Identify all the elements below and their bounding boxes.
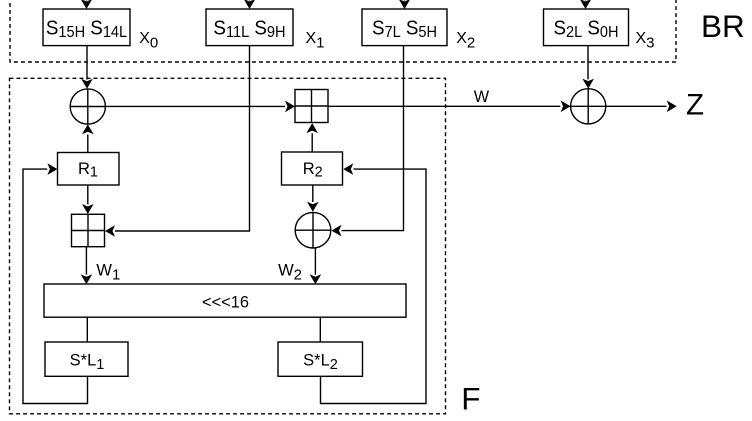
svg-text:X2: X2 [456, 30, 475, 52]
wire input arrow into X0 cell [81, 0, 93, 9]
label BR [701, 8, 745, 44]
label W1 [96, 261, 120, 283]
S-box S*L1 [45, 342, 128, 376]
wire R2 down to XOR E [307, 185, 319, 212]
register R1 [58, 153, 120, 186]
dashed box BR [10, 0, 676, 62]
register cell box S2L S0H [544, 9, 629, 46]
wire feedback S*L2 to R2 (right loop) [321, 163, 427, 403]
svg-text:Z: Z [686, 88, 704, 121]
label W [474, 88, 490, 106]
wire X2 cell down and left to XOR E [332, 46, 404, 237]
XOR E (exclusive-or below R2) [295, 212, 331, 248]
label W2 [278, 261, 302, 283]
XOR A (left exclusive-or) [70, 89, 105, 124]
S-box S*L2 [278, 342, 363, 376]
svg-text:S11L S9H: S11L S9H [213, 17, 285, 41]
svg-text:X3: X3 [636, 30, 655, 52]
svg-text:R2: R2 [303, 160, 323, 181]
register cell box S7L S5H [362, 9, 447, 46]
wire X3 cell down to XOR C [582, 46, 594, 89]
wire XOR A to adder B [105, 101, 295, 113]
svg-text:<<<16: <<<16 [202, 293, 249, 311]
wire rotate box down to S*L2 [319, 317, 321, 342]
adder D (mod 2^32 add, below R1) [72, 214, 105, 246]
wire feedback S*L1 to R1 (left loop) [23, 163, 88, 403]
wire R1 down to adder D [82, 185, 94, 214]
register R2 [282, 152, 343, 185]
svg-text:W1: W1 [96, 261, 120, 283]
register cell box S15H S14L [43, 9, 130, 46]
svg-text:S*L2: S*L2 [303, 351, 338, 373]
svg-text:S2L S0H: S2L S0H [553, 17, 618, 41]
svg-text:W: W [474, 88, 490, 106]
svg-text:X0: X0 [139, 30, 158, 52]
wire input arrow into X1 cell [244, 0, 256, 9]
adder B (mod 2^32 add, top) [295, 90, 328, 123]
register cell box S11L S9H [206, 9, 293, 46]
wire X0 cell down to XOR A [81, 46, 93, 89]
wire W from adder B to XOR C [328, 101, 571, 113]
svg-text:S7L S5H: S7L S5H [372, 17, 437, 41]
svg-text:W2: W2 [278, 261, 302, 283]
wire input arrow into X3 cell [580, 0, 592, 9]
rotate-left-16 box [44, 284, 406, 317]
label X0 [139, 30, 158, 52]
label X2 [456, 30, 475, 52]
wire R2 up to adder B [306, 123, 318, 152]
XOR C (right exclusive-or) [571, 89, 606, 124]
label F [461, 380, 480, 416]
svg-text:R1: R1 [78, 160, 98, 181]
wire rotate box down to S*L1 [86, 317, 88, 342]
wire XOR E down to rotate box (W2) [310, 247, 322, 284]
label X1 [306, 30, 325, 52]
wire R1 up to XOR A [82, 124, 94, 152]
svg-text:S*L1: S*L1 [70, 351, 105, 373]
dashed box F [10, 78, 446, 414]
wire adder D down to rotate box (W1) [81, 247, 93, 285]
label Z [686, 88, 704, 121]
svg-text:X1: X1 [306, 30, 325, 52]
svg-text:F: F [461, 380, 480, 416]
wire XOR C to Z output [606, 101, 677, 113]
svg-text:BR: BR [701, 8, 745, 44]
wire input arrow into X2 cell [399, 0, 411, 9]
svg-text:S15H S14L: S15H S14L [46, 17, 127, 41]
wire X1 cell down and left to adder D [105, 46, 250, 237]
label X3 [636, 30, 655, 52]
